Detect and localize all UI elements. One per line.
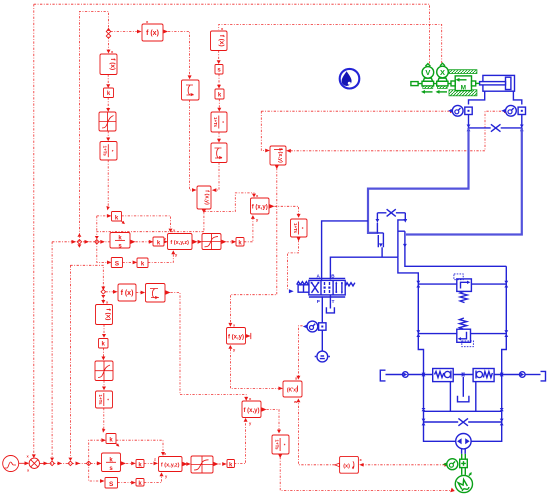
pilot chamber left [377, 223, 383, 258]
velocity sensor arrow [425, 91, 433, 93]
bypass line with closed valve [424, 421, 502, 423]
wire kbtm3 out up to fxy4 bottom [234, 422, 246, 464]
hydraulic cylinder [480, 75, 515, 91]
block derivative s U8 [215, 65, 223, 75]
valve mid cell closed [325, 282, 330, 293]
check valve block left [433, 369, 454, 382]
pipe right of blocks [494, 374, 519, 376]
wire col1 k to sat [107, 98, 109, 109]
block lag 1/(1+Ts) U6 [100, 142, 117, 161]
pilot orifice left leg [376, 213, 378, 219]
valve spring left [297, 282, 309, 285]
block f(x,y) rot U12 [197, 186, 211, 209]
wire green shaft sensor to fKx bottom [298, 402, 444, 465]
port symbol left of orifice row [380, 370, 408, 381]
wire feedback from X sensor [219, 25, 442, 64]
pipe cross line with closed valve [469, 127, 522, 129]
wire f(x,y)rot out down [202, 210, 206, 214]
pump motor circle [456, 434, 471, 449]
wire source to multiplier [19, 462, 28, 464]
svg-text:f (x): f (x) [109, 58, 116, 70]
directional valve 4/3 [289, 274, 355, 305]
shaft torque sensor [443, 459, 458, 470]
svg-text:f (x,y): f (x,y) [228, 335, 244, 341]
valve spring right [345, 283, 355, 286]
block f(K x) U32 [283, 376, 302, 405]
node junction bypass left [422, 419, 426, 426]
wire riser x52 from bottom row [51, 242, 53, 461]
hatched wall bottom [449, 90, 477, 96]
svg-text:T: T [332, 299, 335, 304]
pipe P down to gauge tap [321, 296, 323, 322]
wire riser x79 to top bus [79, 12, 108, 242]
wire long cross link y231.7 [97, 232, 204, 263]
wire satrow1 out [221, 240, 226, 244]
wire kvar2 row feed from bottom junction [89, 440, 102, 463]
position sensor base [437, 78, 448, 88]
block integrator U2 [182, 80, 200, 100]
relief valve manifold right rail [471, 266, 506, 441]
svg-text:1+Ts: 1+Ts [293, 223, 298, 234]
svg-text:f (x): f (x) [146, 30, 159, 37]
node junction row1 x79 [77, 234, 81, 237]
wire kvar2 diagonal [113, 441, 119, 446]
block sample S U22 [111, 258, 122, 268]
block f(x,y) U33 [242, 396, 261, 426]
relief valve RV2 [457, 318, 474, 347]
pump suction line [424, 410, 502, 412]
wire kbtm1 out to fxyzbtm [144, 462, 153, 464]
wire kvar1 diagonal [119, 219, 125, 224]
block gain k U21 [236, 238, 244, 247]
node junction bus x88.7 [86, 461, 91, 466]
node junction suction right [500, 408, 504, 412]
wire row1 main [52, 241, 109, 243]
svg-text:V: V [425, 68, 430, 77]
line through RV1 [418, 283, 506, 285]
wire fxyz1 out [192, 240, 197, 244]
velocity sensor V [422, 64, 434, 79]
wire krow1b out up to f(x,y)2 bottom [244, 219, 253, 242]
wire integrator1 out down to f(x,y)rot left input [190, 100, 192, 190]
svg-text:f (x,y): f (x,y) [204, 190, 210, 205]
wire krow1 out [163, 241, 166, 243]
svg-text:(x): (x) [343, 463, 350, 469]
node junction suction left [422, 408, 426, 412]
svg-text:f (x): f (x) [105, 309, 112, 321]
block transfer k/s U41 [102, 453, 121, 472]
pilot line left long [368, 128, 469, 233]
source signal generator [3, 456, 19, 472]
pipe cylinder right port [513, 91, 521, 104]
tank under valve T port [326, 295, 334, 313]
wire J1 to f(x)1 [111, 31, 137, 33]
node junction fx3 [101, 290, 106, 295]
block gain k U36 [136, 460, 144, 469]
svg-text:z: z [164, 236, 166, 241]
block lag U10 [211, 112, 227, 132]
block f(x,y) U14 [251, 193, 270, 222]
wire Sbtm out to kbtm2 [118, 482, 132, 484]
wire kvar1 input from riser [97, 216, 108, 232]
wire col2 k to lag2 [218, 99, 220, 108]
svg-text:1+Ts: 1+Ts [275, 439, 280, 450]
pipe between check valves [453, 374, 473, 376]
svg-text:f (x,y,z): f (x,y,z) [170, 240, 189, 246]
block gain k U40 [136, 479, 144, 488]
wire y111 drop to fxy3 left [261, 111, 265, 150]
wire kvar2 out over to fxyzbtm top [116, 440, 163, 452]
svg-text:f (x,y,z): f (x,y,z) [161, 463, 180, 469]
svg-text:f (x,y): f (x,y) [243, 408, 259, 414]
wire mult top input arrow [32, 454, 36, 458]
wire col3 lag3 down to kvar2 [103, 408, 105, 429]
wire left pressure sensor line y111 [261, 110, 450, 112]
node junction left cross [467, 125, 471, 132]
block f(x,y) U31 [227, 323, 246, 353]
sensor tap square at P [319, 323, 326, 330]
node junction bus x70 [68, 461, 73, 466]
block gain k U39 [227, 460, 235, 469]
svg-text:P: P [317, 299, 320, 304]
valve input arrow [289, 289, 294, 293]
wire col1 lag1 down to kvar1 [107, 160, 109, 207]
block lag U34 [272, 435, 289, 454]
wire col3 sat to lag3 [103, 381, 105, 387]
block f(x) rot U7 [211, 26, 228, 51]
svg-text:M: M [461, 84, 466, 91]
block f(x) rot U3 [100, 49, 117, 75]
node junction RV1 left [416, 281, 420, 288]
pressure sensor left [448, 105, 463, 116]
wire col2 f(x)rot to s [218, 51, 220, 61]
wire fxy1 out stub [246, 335, 249, 337]
block gain k U27 [99, 339, 109, 349]
pipe right down [521, 115, 523, 128]
wire col3 k to sat [102, 348, 104, 357]
svg-text:S: S [109, 481, 114, 488]
wire col3 f(x)rot to k [103, 325, 105, 335]
wire S2 out to krow2 [123, 261, 133, 263]
wire branch to f(x,y)2 top via riser [204, 193, 254, 212]
block saturation U20 [202, 234, 221, 250]
shaft coupler [460, 459, 468, 467]
pipe pilot bottom link to valve B [330, 257, 398, 279]
node junction mid orifice row [461, 373, 465, 377]
velocity sensor base [422, 78, 434, 88]
pipe left down to cross line [468, 115, 470, 128]
block f(x,y) rot U13 [270, 146, 286, 165]
node junction row1 x96.8 [95, 240, 100, 245]
relief valve RV1 [454, 274, 472, 303]
check valve block right [473, 369, 494, 382]
block f(x) U1 top [142, 19, 163, 41]
tank under orifice row [458, 377, 469, 402]
wire col1 f(x)rot to k [107, 75, 109, 85]
block f(x,y,z) U37 [154, 451, 182, 479]
wire left tall drop to multiplier [33, 4, 35, 454]
wire junction to f(x)3 [106, 291, 113, 293]
node junction RV1 right [504, 281, 508, 288]
wire col2 s to k [218, 74, 220, 85]
node junction RV2 left [416, 330, 420, 337]
svg-text:*: * [281, 444, 286, 446]
block gain k U18 [153, 237, 164, 246]
wire J1 down to col1 [108, 37, 110, 50]
wire kbtm2 out up into fxyzbtm bottom [144, 476, 162, 482]
link mass to rod [476, 82, 480, 84]
hatched wall top [449, 70, 477, 74]
svg-text:f (x): f (x) [121, 290, 134, 297]
svg-text:1+Ts: 1+Ts [213, 117, 218, 128]
wire cylinder pressure line y151 [290, 111, 504, 151]
block saturation U5 [99, 112, 116, 131]
pipe valve A riser [322, 221, 368, 280]
wire k/s1 out [130, 240, 135, 244]
node junction J1 [107, 28, 111, 31]
wire intsat3 out long path to fxy4 top [165, 290, 170, 294]
position sensor arrow [439, 91, 447, 93]
wire lag4 out down and right to green motor [278, 454, 282, 458]
block variable gain k U30 [106, 434, 116, 444]
fluid properties icon [340, 69, 360, 89]
sensor tap square left [465, 107, 472, 114]
wire col1 sat to lag1 [107, 131, 109, 138]
wire fxy4 out to lag4 [261, 407, 266, 411]
pressure sensor right [501, 105, 516, 116]
pipe tap to tank source [321, 330, 323, 351]
block variable gain k U16 [112, 212, 122, 222]
svg-text:*: * [105, 399, 110, 401]
svg-text:z: z [154, 457, 156, 462]
pilot orifice right leg [404, 213, 406, 219]
block f(x,y,z) U19 [164, 228, 192, 258]
node junction RV2 right [504, 330, 508, 337]
multiplier node [27, 454, 40, 473]
wire col2 lag2 to integrator2 [218, 132, 220, 139]
pipe check valve left drain [449, 382, 451, 412]
svg-text:(K'x): (K'x) [287, 388, 298, 394]
block lag U29 [96, 391, 113, 408]
wire top feedback from V sensor [34, 4, 430, 63]
block f(x) rot U26 [96, 300, 113, 325]
line through RV2 [418, 333, 506, 335]
zero force source port [411, 82, 418, 86]
node junction bypass right [500, 419, 504, 426]
svg-text:S: S [115, 261, 120, 268]
mass block M [451, 76, 476, 91]
wire f(x)1 out to integrator1 [164, 30, 169, 34]
pilot orifice X [377, 209, 405, 216]
node junction left orifice row [422, 373, 426, 377]
wire riser x70 up and over to fx3 junction [70, 265, 103, 461]
svg-text:X: X [440, 68, 445, 77]
closed connection X2 [458, 418, 468, 425]
tank pressure source circle [315, 351, 330, 362]
pilot line right long [406, 128, 522, 235]
wire bus branch down to S bottom row [89, 463, 100, 481]
block limited integrator U25 [146, 284, 166, 303]
block signal transducer (x) U42 [335, 456, 363, 473]
wire fxy1 bottom riser and link to fKx [230, 349, 278, 389]
pipe P supply riser from valve [398, 257, 418, 283]
green shaft lower [462, 468, 466, 475]
block gain k U23 [137, 258, 148, 268]
block gain k U9 [215, 89, 224, 99]
block integrator U11 [211, 143, 227, 163]
green shaft upper [462, 454, 466, 459]
node junction bus x52 [50, 461, 55, 466]
wire f(x)3 out to intsat3 [136, 292, 141, 294]
sensor tap square right [518, 107, 525, 114]
pipe port to manifold [408, 374, 433, 376]
svg-text:*: * [300, 227, 305, 229]
pipe check valve right drain [475, 382, 477, 412]
svg-text:1+Ts: 1+Ts [98, 394, 103, 405]
wire kvar1 out to fxyz1 top [122, 216, 171, 229]
node junction right cross [520, 125, 524, 132]
wire bottom bus [39, 462, 47, 464]
wire lagmid out to valve solenoid [297, 237, 301, 241]
block gain k U4 [104, 88, 114, 98]
wire integrator2 down to f(x,y)rot right input [216, 163, 219, 191]
closed connection X [491, 124, 501, 131]
valve left cell crossed arrows [312, 283, 319, 293]
svg-text:f (x): f (x) [218, 35, 225, 47]
wire satbtm out to kbtm3 [213, 462, 218, 466]
svg-text:*: * [220, 121, 225, 123]
wire fxy3 out down to fxy1 top [275, 165, 279, 169]
pilot chamber right [398, 220, 506, 266]
relief valve manifold left rail [418, 283, 456, 441]
position sensor X [437, 63, 449, 78]
pressure sensor at P [303, 321, 318, 332]
wire fxy2 out to lagmid [269, 204, 274, 208]
wire pressure sensor to fKx top [298, 326, 302, 376]
block sample S U35 [105, 478, 118, 489]
port symbol right of orifice row [520, 371, 546, 381]
wire fxyzbtm out to satbtm [182, 462, 187, 466]
prime mover motor [455, 472, 472, 492]
wire junction down to col3 [101, 295, 105, 298]
block f(x) U24 [118, 284, 136, 301]
node junction right orifice row [500, 373, 504, 377]
wire krow2 out up into fxyz1 bottom [148, 254, 173, 262]
rail line [418, 83, 451, 85]
block saturation U28 [95, 361, 113, 381]
block transfer k/s U17 [110, 233, 130, 250]
svg-text:1+Ts: 1+Ts [103, 146, 108, 157]
pipe cylinder left port [469, 91, 485, 104]
pump shaft [462, 449, 466, 454]
block lag U15 [291, 219, 308, 237]
svg-text:*: * [110, 150, 115, 152]
valve right cell parallel arrows [336, 283, 342, 293]
valve proportional solenoid [298, 285, 309, 292]
svg-text:f (x,y): f (x,y) [252, 205, 268, 211]
block saturation U38 [191, 456, 213, 473]
